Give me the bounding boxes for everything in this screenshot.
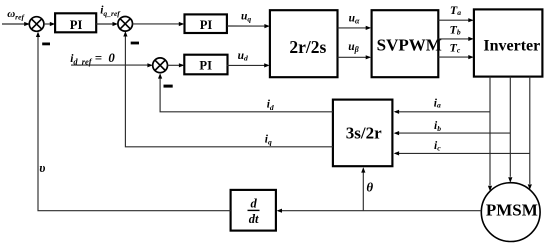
summing junction S3 <box>153 58 168 73</box>
svg-text:d: d <box>250 197 257 211</box>
wire S3 to PI3 <box>168 64 183 66</box>
wire i_d feedback 3s/2r to S3 <box>160 75 333 112</box>
svg-text:ia: ia <box>434 98 441 110</box>
svg-text:Tc: Tc <box>450 41 461 55</box>
wire i_c sense to 3s/2r <box>395 152 530 154</box>
wire S1 to PI1 <box>44 23 54 25</box>
svg-text:dt: dt <box>249 212 259 226</box>
wire i_b sense to 3s/2r <box>395 132 510 134</box>
wire theta to 3s/2r <box>362 169 364 211</box>
block 2r/2s (inverse Park transform) <box>270 10 338 77</box>
wire u_q PI2 to 2r/2s <box>227 25 268 27</box>
block Inverter <box>474 9 543 76</box>
svg-text:id: id <box>267 99 274 112</box>
svg-text:ωref: ωref <box>7 8 25 21</box>
wire S2 to PI2 <box>133 23 183 25</box>
wire inverter phase c down to PMSM <box>529 77 531 184</box>
svg-text:2r/2s: 2r/2s <box>289 37 326 57</box>
svg-text:PMSM: PMSM <box>486 201 538 220</box>
svg-text:SVPWM: SVPWM <box>377 35 442 54</box>
summing junction S1 <box>29 17 44 32</box>
svg-text:ic: ic <box>434 140 441 152</box>
svg-text:iq_ref: iq_ref <box>100 5 121 18</box>
wire PI1 to S2 <box>96 23 117 25</box>
svg-text:Inverter: Inverter <box>483 38 540 55</box>
block PI2 (q-axis current controller) <box>185 14 227 33</box>
svg-text:PI: PI <box>70 18 83 32</box>
block d/dt (differentiator) <box>231 190 276 231</box>
svg-text:Tb: Tb <box>450 23 461 37</box>
wire i_q feedback 3s/2r to S2 <box>125 32 333 146</box>
svg-text:Ta: Ta <box>450 3 461 17</box>
motor PMSM <box>481 183 540 242</box>
wire u_alpha 2r/2s to SVPWM <box>338 27 370 29</box>
wire speed feedback v to S1 <box>38 33 231 211</box>
minus sign at S3 <box>164 85 173 88</box>
minus sign at S1 <box>42 43 50 46</box>
svg-text:θ: θ <box>366 180 373 195</box>
wire i_d_ref input <box>71 64 152 66</box>
wire T_a SVPWM to Inverter <box>438 19 472 21</box>
wire i_a sense to 3s/2r <box>395 111 490 113</box>
svg-text:ud: ud <box>238 50 248 63</box>
svg-text:uβ: uβ <box>348 41 359 54</box>
svg-text:ib: ib <box>434 120 441 133</box>
wire T_c SVPWM to Inverter <box>438 56 472 58</box>
wire inverter phase b down to PMSM <box>509 77 511 177</box>
block 3s/2r (Clarke-Park transform) <box>333 100 393 167</box>
svg-text:uq: uq <box>241 11 251 24</box>
block PI3 (d-axis current controller) <box>184 55 227 75</box>
wire u_beta 2r/2s to SVPWM <box>338 56 370 58</box>
svg-text:PI: PI <box>200 18 213 32</box>
svg-text:υ: υ <box>39 161 45 175</box>
wire u_d PI3 to 2r/2s <box>227 64 268 66</box>
block SVPWM <box>372 10 439 77</box>
block PI1 (speed controller) <box>55 13 96 32</box>
svg-text:uα: uα <box>349 12 360 25</box>
wire PMSM to d/dt <box>278 210 481 212</box>
svg-text:3s/2r: 3s/2r <box>346 123 382 142</box>
wire omega_ref input <box>2 23 29 25</box>
minus sign at S2 <box>131 42 139 45</box>
summing junction S2 <box>118 17 133 32</box>
wire inverter phase a down to PMSM <box>489 77 491 186</box>
svg-text:id_ref = 0: id_ref = 0 <box>70 51 115 67</box>
svg-text:iq: iq <box>265 133 272 146</box>
wire T_b SVPWM to Inverter <box>438 38 472 40</box>
svg-text:PI: PI <box>199 59 212 73</box>
